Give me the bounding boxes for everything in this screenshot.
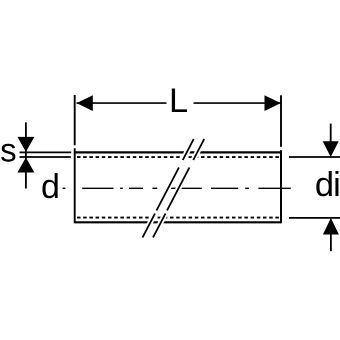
- dimension s arrowhead up: [17, 158, 34, 173]
- dimension L extension line right: [280, 95, 282, 147]
- dimension s leader line: [25, 122, 27, 188]
- svg-text:d: d: [41, 168, 60, 206]
- dimension di arrowhead down: [323, 141, 339, 157]
- pipe outer wall top edge: [75, 151, 281, 153]
- dimension di extension line bottom: [289, 217, 340, 219]
- dimension L arrowhead left: [77, 95, 93, 111]
- pipe inner wall bottom (dashed): [77, 217, 280, 219]
- svg-text:s: s: [0, 131, 17, 168]
- dimension di leader line top: [330, 124, 332, 142]
- pipe left end edge: [74, 148, 76, 223]
- dimension di arrowhead up: [323, 218, 339, 235]
- pipe center line (dash-dot axis): [63, 187, 291, 189]
- dimension di extension line top: [289, 156, 340, 158]
- break mark double slash (right stroke): [153, 139, 204, 238]
- pipe inner wall top (dashed): [77, 156, 280, 158]
- dimension di leader line bottom: [330, 234, 332, 251]
- dimension L line: [77, 102, 281, 104]
- dimension L arrowhead right: [265, 95, 281, 111]
- break mark double slash (left stroke): [143, 139, 194, 238]
- svg-text:di: di: [315, 166, 340, 204]
- dimension s inner surface extension line: [20, 156, 71, 158]
- pipe outer wall bottom edge: [75, 221, 281, 223]
- dimension s outer surface extension line: [20, 151, 72, 153]
- dimension L extension line left: [74, 95, 76, 145]
- pipe right end edge: [280, 150, 282, 223]
- svg-text:L: L: [169, 82, 188, 120]
- break mark white casing: [143, 139, 205, 238]
- dimension s arrowhead down: [17, 137, 34, 152]
